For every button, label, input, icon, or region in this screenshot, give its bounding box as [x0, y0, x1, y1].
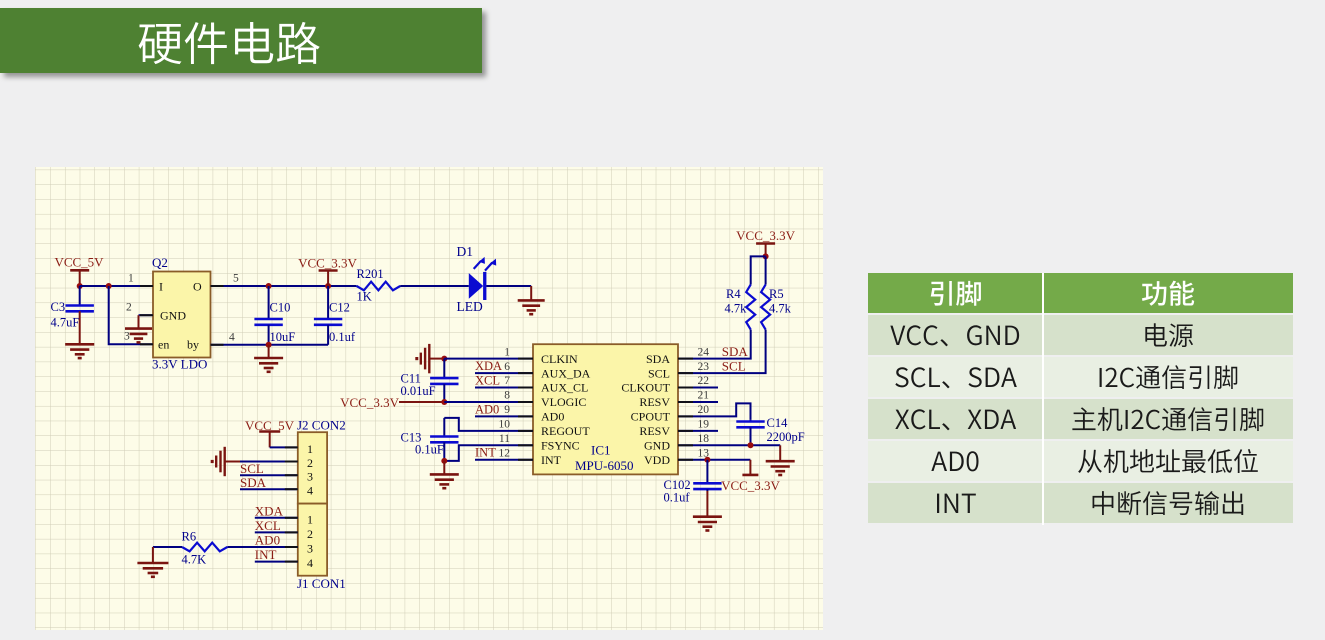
table row 4 background: [868, 441, 1293, 481]
svg-text:SDA: SDA: [646, 352, 670, 366]
svg-text:FSYNC: FSYNC: [541, 439, 580, 453]
wire Q2 GND pin 2: [139, 314, 154, 316]
wire C102 to ground: [706, 491, 708, 517]
svg-text:SCL: SCL: [722, 358, 746, 373]
svg-text:VCC_3.3V: VCC_3.3V: [736, 228, 795, 243]
capacitor C102: [693, 460, 721, 491]
svg-text:C12: C12: [329, 301, 350, 315]
wire GND down: [779, 445, 781, 461]
wire R201 to D1: [400, 285, 469, 287]
wire J2 pin 3 SCL: [240, 474, 298, 476]
svg-text:SDA: SDA: [722, 344, 749, 359]
svg-text:CPOUT: CPOUT: [631, 410, 671, 424]
svg-text:REGOUT: REGOUT: [541, 424, 590, 438]
wire J2 pin 4 SDA: [240, 488, 298, 490]
wire R4 to SDA pin 24: [678, 330, 751, 359]
capacitor C14: [736, 420, 764, 445]
junction VCC_5V C3: [77, 283, 83, 289]
svg-text:VCC_3.3V: VCC_3.3V: [721, 478, 780, 493]
wire down to LED ground: [530, 286, 532, 300]
wire VCC_3.3V to junction: [399, 401, 444, 403]
svg-text:0.01uF: 0.01uF: [401, 384, 436, 398]
table row 5 background: [868, 483, 1293, 523]
svg-text:R201: R201: [357, 267, 384, 281]
stub pin 19: [678, 430, 718, 432]
svg-text:4: 4: [307, 484, 313, 498]
svg-text:7: 7: [504, 375, 510, 387]
wire bar to J2 pin 2: [225, 461, 241, 463]
svg-text:IC1: IC1: [591, 443, 611, 458]
svg-text:by: by: [187, 338, 199, 352]
junction pullup top: [763, 253, 769, 259]
svg-text:4.7k: 4.7k: [769, 302, 792, 316]
svg-text:10uF: 10uF: [270, 330, 296, 344]
svg-text:SDA: SDA: [240, 475, 267, 490]
svg-text:4.7K: 4.7K: [182, 552, 207, 566]
power bar symbol at CLKIN: [417, 344, 430, 373]
wire D1 to ground: [486, 285, 531, 287]
svg-text:VCC_3.3V: VCC_3.3V: [298, 256, 357, 271]
svg-text:INT: INT: [255, 547, 277, 562]
svg-text:GND: GND: [644, 439, 670, 453]
wire C3 to ground: [79, 311, 81, 344]
svg-text:5: 5: [233, 273, 239, 285]
wire VCC_5V to Q2 pin 1: [80, 285, 153, 287]
resistor R6: [182, 543, 227, 552]
wire FSYNC pin 11: [444, 445, 533, 461]
junction C11 bottom: [441, 399, 447, 405]
ground under C3: [65, 344, 94, 358]
capacitor C10: [254, 286, 282, 345]
LED D1: [469, 257, 496, 300]
svg-text:C10: C10: [270, 301, 291, 315]
svg-text:0.1uF: 0.1uF: [415, 443, 444, 457]
wire J1 pin 3 AD0: [227, 546, 297, 548]
wire C13 to ground: [443, 461, 445, 475]
resistor R4: [746, 285, 755, 330]
wire R5 to SCL pin 23: [678, 330, 766, 374]
svg-text:VLOGIC: VLOGIC: [541, 395, 586, 409]
svg-text:R6: R6: [182, 529, 197, 543]
junction C14 bottom: [748, 442, 754, 448]
svg-text:AUX_CL: AUX_CL: [541, 381, 588, 395]
wire VLOGIC pin 8: [444, 401, 533, 403]
svg-text:22: 22: [698, 375, 710, 387]
wire VDD pin 13: [678, 459, 750, 461]
wire Q2 output rail: [211, 285, 357, 287]
svg-text:10: 10: [499, 419, 511, 431]
connector J1 CON1 body: [298, 504, 327, 576]
svg-text:XDA: XDA: [475, 359, 502, 373]
svg-text:1: 1: [128, 273, 134, 285]
svg-text:21: 21: [698, 390, 710, 402]
capacitor C11: [430, 359, 458, 402]
table header text: [931, 281, 952, 306]
junction C12 top: [325, 283, 331, 289]
svg-text:1: 1: [504, 346, 510, 358]
svg-text:2: 2: [126, 302, 132, 314]
svg-text:XCL: XCL: [475, 374, 500, 388]
svg-text:4.7k: 4.7k: [725, 302, 748, 316]
svg-text:0.1uf: 0.1uf: [329, 330, 356, 344]
junction C10 bottom: [266, 342, 272, 348]
power port VCC_3.3V at VDD pointing down: [742, 460, 758, 475]
connector J2 CON2 body: [298, 432, 327, 503]
ground after LED: [518, 300, 545, 314]
regulator Q2 body: [153, 272, 211, 358]
svg-text:AUX_DA: AUX_DA: [541, 366, 591, 380]
svg-text:24: 24: [698, 346, 710, 358]
svg-text:1: 1: [307, 512, 313, 526]
table column divider: [1042, 273, 1044, 525]
svg-text:J2 CON2: J2 CON2: [297, 418, 346, 433]
svg-text:XCL: XCL: [255, 518, 281, 533]
power port VCC_5V at J2: [259, 432, 280, 448]
svg-text:4.7uF: 4.7uF: [51, 316, 80, 330]
junction C10 top: [266, 283, 272, 289]
svg-text:MPU-6050: MPU-6050: [575, 458, 634, 473]
svg-text:3: 3: [307, 470, 313, 484]
capacitor C13: [430, 418, 458, 461]
power bar symbol at J2 pin 2: [212, 447, 225, 476]
ground under C10: [254, 358, 283, 372]
svg-text:O: O: [193, 280, 202, 294]
svg-text:I: I: [159, 280, 163, 294]
table row 4 text: [931, 452, 947, 471]
wire INT pin 12: [475, 459, 533, 461]
wire J1 pin 1 XDA: [255, 517, 298, 519]
svg-text:AD0: AD0: [541, 410, 564, 424]
svg-text:RESV: RESV: [639, 424, 670, 438]
svg-text:3.3V LDO: 3.3V LDO: [152, 357, 207, 372]
svg-text:19: 19: [698, 419, 710, 431]
svg-text:Q2: Q2: [152, 255, 168, 270]
wire pin 2 down to ground: [138, 315, 140, 327]
svg-text:11: 11: [499, 433, 510, 445]
table row 2 background: [868, 357, 1293, 397]
svg-text:4: 4: [229, 332, 235, 344]
power port VCC_3.3V at rail: [319, 271, 338, 287]
stub pin 21: [678, 401, 718, 403]
svg-text:CLKOUT: CLKOUT: [621, 381, 670, 395]
wire J1 pin 4 INT: [255, 561, 298, 563]
svg-text:2200pF: 2200pF: [767, 430, 805, 444]
wire CPOUT pin 20 to C14: [678, 403, 751, 420]
wire bar to junction: [429, 358, 444, 360]
svg-text:3: 3: [307, 542, 313, 556]
wire to R5 top: [765, 256, 767, 284]
table row 3 background: [868, 399, 1293, 439]
junction en tap: [106, 283, 112, 289]
ground under C102: [693, 517, 722, 531]
wire by pin 4 to cap bottoms: [211, 344, 329, 346]
svg-text:VCC_5V: VCC_5V: [54, 255, 104, 270]
svg-text:D1: D1: [457, 244, 474, 259]
svg-text:INT: INT: [541, 453, 562, 467]
svg-text:18: 18: [698, 433, 710, 445]
wire AUX_DA pin 6: [475, 372, 533, 374]
table row 5 text: [937, 494, 939, 513]
ground at Q2 pin 2: [125, 329, 152, 343]
junction C13 bottom: [441, 458, 447, 464]
svg-text:SCL: SCL: [648, 366, 670, 380]
svg-text:12: 12: [499, 448, 511, 460]
table row 2 text: [895, 367, 908, 387]
wire J2 pin 1: [270, 446, 298, 448]
stub pin 22: [678, 387, 718, 389]
svg-text:GND: GND: [160, 309, 186, 323]
svg-text:1: 1: [307, 442, 313, 456]
wire REGOUT pin 10 to C13: [444, 418, 533, 431]
svg-text:J1 CON1: J1 CON1: [297, 576, 346, 591]
svg-text:RESV: RESV: [639, 395, 670, 409]
svg-text:XDA: XDA: [255, 503, 284, 518]
wire input to en pin 3: [109, 286, 153, 344]
capacitor C12: [314, 286, 342, 345]
pin stubs overlay: [140, 286, 693, 562]
svg-text:CLKIN: CLKIN: [541, 352, 578, 366]
junction C11 top: [441, 356, 447, 362]
ground at pin 18: [766, 461, 795, 475]
wire down to R6 ground: [152, 547, 154, 563]
svg-text:SCL: SCL: [240, 461, 264, 476]
svg-text:C14: C14: [767, 416, 789, 430]
power port VCC_3.3V pullups: [756, 244, 775, 257]
svg-text:VDD: VDD: [644, 453, 670, 467]
wire to R4 top: [751, 256, 766, 284]
table row 3 text: [895, 410, 909, 429]
svg-text:R4: R4: [726, 287, 741, 301]
wire J1 pin 2 XCL: [255, 531, 298, 533]
junction C102 top: [704, 457, 710, 463]
table header row background: [868, 273, 1293, 313]
wire CLKIN pin 1: [444, 358, 533, 360]
title bar: [0, 8, 482, 73]
wire J2 pin 2: [240, 461, 298, 463]
wire AUX_CL pin 7: [475, 387, 533, 389]
svg-text:en: en: [158, 338, 169, 352]
svg-text:2: 2: [307, 527, 313, 541]
svg-text:AD0: AD0: [475, 402, 499, 416]
svg-text:VCC_3.3V: VCC_3.3V: [340, 395, 399, 410]
svg-text:6: 6: [504, 361, 510, 373]
wire ground to R6: [153, 546, 182, 548]
capacitor C3: [66, 286, 94, 311]
svg-text:8: 8: [504, 390, 510, 402]
wire GND pin 18: [678, 444, 780, 446]
resistor R201: [357, 282, 401, 291]
svg-text:23: 23: [698, 361, 710, 373]
svg-text:1K: 1K: [357, 290, 372, 304]
svg-text:C3: C3: [51, 300, 66, 314]
wire AD0 pin 9: [475, 415, 533, 417]
table row 1 background: [868, 315, 1293, 355]
svg-text:AD0: AD0: [255, 533, 280, 548]
power port VCC_5V: [70, 270, 89, 286]
svg-text:LED: LED: [457, 299, 483, 314]
svg-text:2: 2: [307, 456, 313, 470]
ground at R6: [137, 563, 168, 577]
svg-text:3: 3: [124, 331, 130, 343]
ground under C13: [430, 474, 459, 488]
resistor R5: [761, 285, 770, 330]
IC IC1 MPU-6050 body: [533, 344, 678, 474]
svg-text:0.1uf: 0.1uf: [664, 491, 691, 505]
wire C10 bottom to ground: [268, 345, 270, 358]
svg-text:R5: R5: [769, 287, 784, 301]
svg-text:INT: INT: [475, 446, 496, 460]
svg-text:9: 9: [504, 404, 510, 416]
svg-text:20: 20: [698, 404, 710, 416]
table row 1 text: [890, 326, 905, 345]
svg-text:4: 4: [307, 556, 313, 570]
